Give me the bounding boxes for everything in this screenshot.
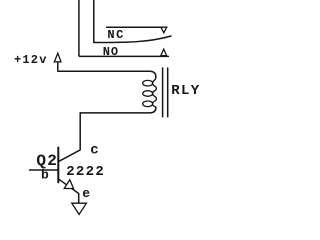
relay coil loop 1 [143, 80, 153, 86]
wire base lead [30, 169, 59, 171]
relay switch arm [94, 36, 171, 43]
svg-text:c: c [90, 143, 98, 159]
svg-text:+12v: +12v [14, 53, 48, 67]
relay NC contact line [107, 26, 167, 28]
relay coil loop 3 [143, 101, 153, 107]
wire common pole from top [93, 0, 95, 42]
relay core bar 1 [162, 68, 164, 117]
svg-text:NO: NO [103, 45, 119, 59]
svg-text:b: b [41, 168, 49, 183]
relay NC terminal triangle [161, 27, 167, 33]
transistor Q2 base bar [57, 148, 59, 183]
ground symbol [72, 203, 87, 214]
svg-text:NC: NC [107, 28, 124, 42]
wire NO feed from top [79, 0, 168, 56]
svg-text:RLY: RLY [171, 83, 200, 99]
relay coil loop 2 [143, 91, 153, 97]
transistor emitter wire [59, 179, 79, 203]
relay core bar 2 [167, 68, 169, 117]
wire +12V to relay coil (top lead) [58, 71, 156, 77]
svg-text:2222: 2222 [66, 164, 105, 180]
wire relay coil bottom lead [80, 108, 156, 113]
svg-text:e: e [82, 186, 90, 201]
+12V supply arrow [54, 53, 61, 62]
wire collector to relay [59, 113, 80, 161]
transistor emitter arrowhead [64, 180, 73, 189]
relay coil RLY spine [153, 77, 157, 107]
relay NO terminal triangle [161, 49, 167, 56]
